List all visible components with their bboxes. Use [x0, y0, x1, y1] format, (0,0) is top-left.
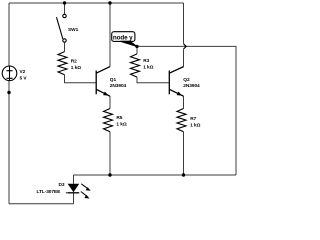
wire node y rail — [137, 45, 184, 47]
svg-text:R5: R5 — [116, 115, 122, 121]
junction dot top rail at SW1 — [63, 1, 66, 4]
transistor Q1 — [96, 67, 110, 97]
wire hop over node y rail — [184, 44, 187, 49]
wire r7 bottom lead — [183, 132, 185, 175]
wire r2 to q1 base — [65, 75, 97, 83]
svg-text:Q2: Q2 — [183, 77, 190, 83]
junction dot mid rail at R7 — [182, 173, 185, 176]
LED light arrow 2 — [81, 192, 90, 199]
label leader dash — [66, 192, 68, 194]
wire top rail — [9, 2, 184, 4]
junction dot mid rail at R5 — [108, 173, 111, 176]
wire r5 bottom lead — [109, 132, 111, 175]
svg-text:R3: R3 — [143, 58, 149, 64]
svg-text:R2: R2 — [71, 58, 77, 64]
wire q1 collector — [109, 3, 111, 67]
svg-text:LTL-307EE: LTL-307EE — [37, 189, 62, 195]
voltage source V2 — [2, 66, 17, 81]
svg-text:D3: D3 — [59, 182, 65, 188]
svg-text:2N3904: 2N3904 — [110, 83, 127, 89]
switch SW1 — [57, 14, 67, 42]
node y callout tail — [120, 41, 137, 47]
resistor R7 — [177, 109, 186, 132]
svg-text:Q1: Q1 — [110, 77, 117, 83]
wire q2 emitter to r7 — [183, 96, 185, 109]
svg-text:1 kΩ: 1 kΩ — [190, 122, 200, 128]
wire mid rail — [74, 174, 237, 176]
wire sw1 top lead — [64, 3, 66, 14]
transistor Q2 — [169, 67, 183, 97]
resistor R3 — [131, 54, 140, 77]
wire sw1 to r2 — [64, 42, 66, 51]
wire left rail lower — [8, 80, 10, 203]
svg-text:1 kΩ: 1 kΩ — [116, 122, 126, 128]
wire q2 collector lower — [183, 49, 185, 66]
wire led upper lead — [73, 175, 75, 184]
wire q2 collector upper above hop — [183, 3, 185, 44]
LED D3 — [68, 184, 80, 192]
svg-text:1 kΩ: 1 kΩ — [143, 64, 153, 70]
svg-text:SW1: SW1 — [68, 27, 79, 33]
LED light arrow 1 — [81, 184, 90, 191]
node y callout box — [112, 32, 138, 47]
LED D3 cathode bar — [68, 192, 80, 194]
svg-text:node y: node y — [113, 34, 133, 41]
wire right rail — [184, 46, 237, 175]
svg-text:V2: V2 — [20, 69, 26, 75]
junction dot left rail — [7, 91, 10, 94]
wire r3 to q2 base — [137, 77, 169, 83]
svg-text:2N3904: 2N3904 — [183, 83, 200, 89]
arrow q1 emitter — [103, 92, 108, 96]
svg-text:5 V: 5 V — [20, 76, 28, 82]
wire r3 top lead — [136, 46, 138, 54]
wire left rail upper — [8, 3, 10, 66]
junction dot top rail at Q1 collector — [108, 1, 111, 4]
resistor R2 — [58, 52, 67, 75]
svg-text:R7: R7 — [190, 116, 196, 122]
wire bottom rail — [9, 203, 74, 205]
resistor R5 — [104, 109, 113, 132]
wire led lower lead — [73, 193, 75, 204]
junction dot node y — [135, 45, 138, 48]
arrow q2 emitter — [177, 92, 182, 96]
svg-text:1 kΩ: 1 kΩ — [71, 65, 81, 71]
wire q1 emitter to r5 — [109, 96, 111, 109]
